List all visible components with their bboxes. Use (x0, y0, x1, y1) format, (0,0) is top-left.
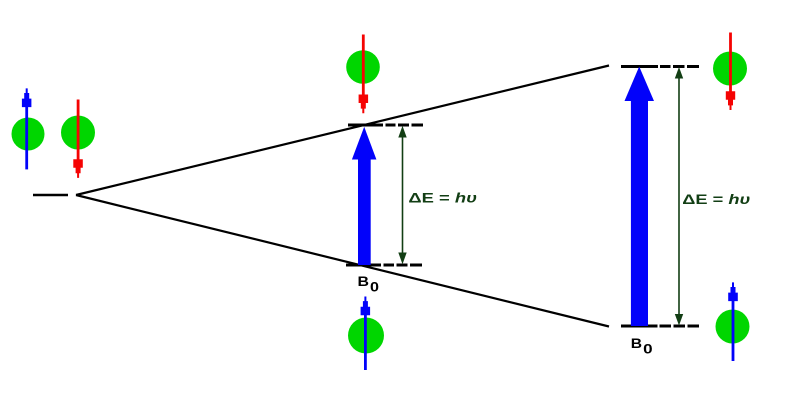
energy gap arrow (middle, dark green double-headed) (398, 126, 406, 264)
B0 field arrow (right, thick blue) (625, 67, 655, 327)
right upper level dashed extension (660, 65, 699, 68)
nucleus spin-up (middle bottom) (348, 318, 384, 354)
right lower energy level (621, 325, 658, 328)
svg-text:0: 0 (643, 341, 653, 357)
spin-up arrow (blue) right bottom (728, 282, 738, 361)
spin-down arrow (red) right top (726, 33, 735, 111)
lower splitting line (76, 195, 609, 327)
nucleus spin-down (middle top) (346, 50, 380, 84)
nucleus spin-up (left pair) (12, 118, 45, 151)
upper splitting line (76, 66, 609, 196)
svg-text:ΔE = hυ: ΔE = hυ (408, 189, 477, 205)
spin-down arrow (red) on left nucleus (73, 100, 83, 178)
energy gap arrow (right, dark green double-headed) (675, 67, 683, 326)
right lower level dashed extension (660, 325, 700, 328)
spin-up arrow (blue) middle bottom (361, 297, 371, 371)
svg-text:0: 0 (370, 278, 379, 294)
svg-text:B: B (631, 335, 642, 351)
nucleus spin-down (left pair) (61, 116, 95, 150)
middle lower level dashed extension (384, 264, 423, 267)
nucleus spin-up (right bottom) (716, 310, 750, 344)
nucleus spin-down (right top) (713, 52, 747, 86)
right upper energy level (621, 65, 658, 68)
middle lower energy level (346, 264, 381, 267)
svg-text:ΔE = hυ: ΔE = hυ (682, 191, 750, 207)
degenerate energy level (no field) (33, 194, 68, 197)
svg-text:B: B (358, 273, 370, 289)
middle upper level dashed extension (386, 124, 424, 127)
spin-down arrow (red) middle top (359, 35, 369, 114)
B0 field arrow (middle, thick blue) (352, 127, 377, 265)
spin-up arrow (blue) on left nucleus (22, 88, 32, 169)
middle upper energy level (348, 124, 383, 127)
